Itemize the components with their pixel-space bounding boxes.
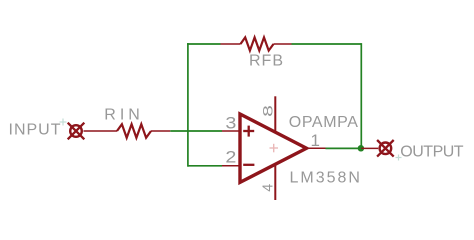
pin 2 stub <box>222 165 240 167</box>
value label RIN <box>104 107 144 124</box>
svg-text:3: 3 <box>225 114 236 133</box>
part name OPAMPA <box>289 114 359 131</box>
wire resistor to pin 3 <box>170 130 222 132</box>
part value LM358N <box>290 169 362 186</box>
wire pin1 to junction <box>326 147 362 149</box>
terminal pad X2 OUTPUT <box>377 140 394 157</box>
pin number 8 <box>259 105 275 117</box>
value label RFB <box>249 53 284 70</box>
svg-text:OUTPUT: OUTPUT <box>400 143 464 160</box>
wire terminal to resistor <box>84 130 118 132</box>
op-amp U1 triangle <box>240 114 307 182</box>
svg-text:RFB: RFB <box>249 53 284 70</box>
origin cross of INPUT terminal <box>60 119 67 126</box>
op-amp minus input mark <box>243 164 254 166</box>
wire feedback vertical right <box>360 43 362 148</box>
svg-text:1: 1 <box>311 131 320 150</box>
resistor RIN <box>117 124 170 138</box>
svg-text:8: 8 <box>259 105 275 117</box>
pin number 2 <box>225 148 236 167</box>
junction dot <box>358 145 365 152</box>
svg-text:2: 2 <box>225 148 236 167</box>
pin number 4 <box>260 184 276 192</box>
wire feedback top right <box>292 43 362 45</box>
resistor RFB <box>221 37 292 50</box>
wire feedback top left <box>187 43 221 45</box>
svg-text:RIN: RIN <box>104 107 144 124</box>
pin number 1 <box>311 131 320 150</box>
wire feedback vertical left <box>187 43 189 167</box>
pin number 3 <box>225 114 236 133</box>
op-amp origin cross <box>270 144 279 153</box>
svg-text:OPAMPA: OPAMPA <box>289 114 359 131</box>
wire junction to output terminal <box>361 147 378 149</box>
svg-text:INPUT: INPUT <box>9 122 62 139</box>
svg-text:4: 4 <box>260 184 276 192</box>
origin cross of OUTPUT terminal <box>396 155 402 161</box>
svg-text:LM358N: LM358N <box>290 169 362 186</box>
pin 1 stub <box>307 147 326 149</box>
power pin 4 <box>274 165 276 200</box>
terminal pad X1 INPUT <box>68 123 85 140</box>
power pin 8 <box>274 96 276 131</box>
net label OUTPUT <box>400 143 464 160</box>
op-amp plus input mark <box>243 126 254 137</box>
net label INPUT <box>9 122 62 139</box>
pin 3 stub <box>222 130 240 132</box>
wire to pin 2 <box>188 165 222 167</box>
